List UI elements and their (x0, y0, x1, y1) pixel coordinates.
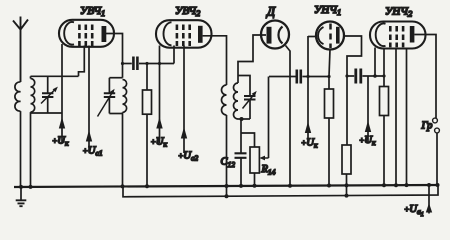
tube UNC1 envelope (316, 22, 344, 50)
supply arrow +Uk4 (365, 121, 371, 133)
svg-text:УНЧ1: УНЧ1 (314, 4, 341, 17)
wire +Uc1 stub under UVC1 (88, 46, 90, 152)
resistor R-b bottom lead (346, 174, 348, 196)
wire UVC2 anode lead (203, 36, 227, 85)
capacitor C-var2 plates (104, 93, 115, 97)
svg-text:УВЧ1: УВЧ1 (80, 5, 105, 18)
antenna (13, 17, 28, 83)
resistor R-a bottom lead (328, 118, 330, 187)
wire UNC2 cathode lead (375, 48, 384, 77)
coil L1 antenna winding (15, 82, 21, 111)
supply arrow +Uk3 (305, 122, 311, 134)
tube UNC2 envelope (370, 22, 426, 49)
tube UNC1 cathode arc (318, 27, 323, 44)
wire UNC1 anode lead (344, 36, 362, 145)
resistor R14 top lead (241, 133, 255, 147)
capacitor C-coup1 right lead to UVC2 grid line (139, 63, 174, 65)
svg-text:+Uк: +Uк (359, 135, 376, 147)
resistor R14 (250, 147, 259, 173)
resistor R-grid2 (143, 90, 152, 114)
capacitor C-var1 plates (42, 93, 53, 97)
second supply rail (123, 185, 438, 197)
capacitor C-var2 branch (108, 78, 110, 114)
capacitor C-coup2 right lead (302, 76, 329, 78)
wire L5 top up (238, 35, 266, 83)
wire tank3 bottom rail (238, 118, 250, 120)
tube D detector envelope (261, 21, 289, 49)
svg-text:+Uк: +Uк (301, 138, 318, 150)
wire tank2 top rail (109, 77, 122, 79)
tube UVC1 envelope (59, 20, 114, 47)
capacitor C-coup2 plates (297, 70, 301, 84)
coil L3 tank2 winding (123, 80, 127, 113)
wire L2 bottom to bus (30, 112, 32, 186)
wire tank3 cap branch top (238, 76, 250, 97)
ground bus (14, 185, 438, 187)
arrow of variable capacitor C-var1 (41, 88, 57, 104)
wire UVC1 cathode lead down crossing tank1 rail (61, 44, 63, 113)
wire UVC2 cathode lead (173, 46, 175, 64)
tube UNC1 grid dashes (329, 24, 332, 49)
tube UVC2 grid dashes (177, 25, 190, 47)
wire UVC1 grid lead to tank1 rail (79, 46, 85, 77)
tube UNC2 cathode arc (376, 24, 386, 47)
coil L2 tank1 winding (31, 79, 35, 113)
capacitor C12 bottom lead (240, 158, 242, 187)
wire L1 bottom to ground bus (20, 111, 22, 186)
supply arrow +Uc1 (86, 130, 92, 142)
svg-text:Д: Д (266, 5, 276, 19)
wire UVC1 anode lead (106, 34, 123, 78)
wire tank1 bottom rail (31, 112, 63, 114)
resistor R-grid2 bottom lead (146, 114, 148, 186)
bus junction dots (19, 183, 440, 198)
node junction UNC2 cathode (373, 74, 377, 78)
svg-text:УНЧ2: УНЧ2 (385, 6, 413, 19)
tube UVC1 anode bar (102, 26, 107, 42)
capacitor C-coup1 left lead (123, 63, 132, 65)
speaker terminal circles Gr (433, 118, 438, 123)
svg-text:+Uс1: +Uс1 (83, 146, 103, 158)
tube UVC2 anode bar (198, 26, 203, 43)
capacitor C-var3 plates (244, 96, 256, 100)
resistor R-b (load) (342, 145, 351, 174)
capacitor C12 plates (235, 153, 247, 158)
wire UNC2 anode out (414, 35, 436, 119)
svg-text:R14: R14 (261, 164, 276, 177)
tube UNC1 anode bar (336, 27, 340, 44)
wire wiper up to output line (268, 77, 270, 159)
svg-text:УВЧ2: УВЧ2 (175, 5, 201, 18)
supply arrow +Uc2 (181, 127, 187, 139)
wire UNC1 left lead (308, 36, 316, 38)
coil L4 detector primary (222, 85, 227, 115)
wire UNC1 bottom lead (329, 50, 330, 90)
potentiometer R14 wiper arrow (262, 157, 269, 159)
svg-text:Гр: Гр (421, 121, 433, 132)
node junction anode/C-coup1 (121, 62, 124, 65)
capacitor C-var1 branch (47, 76, 49, 113)
tube UVC1 grid dashes (79, 25, 92, 47)
svg-text:+Uс2: +Uс2 (178, 151, 198, 163)
wire tank2 bottom rail (109, 113, 122, 115)
tube UVC2 envelope (156, 20, 212, 48)
capacitor C12 top lead (240, 119, 242, 153)
wire +Uc2 stub under UVC2 (183, 46, 185, 154)
arrow of variable capacitor C-var2 (98, 91, 114, 117)
wire tank1 top rail (31, 75, 79, 77)
node junction anode RC (345, 74, 348, 77)
node junction R-grid2 (145, 62, 148, 65)
resistor R-c bottom lead (383, 116, 385, 187)
node junction grid line UNC1 (306, 75, 309, 78)
wire detector output line (269, 76, 296, 78)
tube D cathode arc (278, 27, 282, 44)
tube UNC2 anode bar (410, 26, 415, 43)
svg-text:+Uа1: +Uа1 (404, 204, 424, 218)
svg-text:+Uк: +Uк (52, 136, 69, 148)
capacitor C-var3 bottom lead (249, 100, 251, 120)
resistor R-grid2 top lead (146, 64, 148, 91)
wire UNC1 grid lead (307, 36, 309, 143)
resistor R14 bottom lead (254, 173, 256, 187)
capacitor C-coup1 plates (133, 57, 137, 71)
wire lower terminal to bus (436, 133, 438, 186)
coil L5 detector secondary (234, 83, 239, 119)
capacitor C-coup3 left lead (347, 75, 354, 77)
svg-text:C12: C12 (221, 157, 236, 170)
tube UVC1 cathode arc (64, 22, 74, 45)
wire tank2 bottom to bus (122, 112, 124, 186)
wire D cathode lead down to bus (286, 46, 291, 187)
tube D anode bar (267, 27, 272, 44)
wire L4 bottom to bus (226, 115, 228, 196)
wire UNC2 grid lead to resistor (383, 48, 385, 87)
wire UNC2 heater leads (396, 48, 407, 187)
tube UVC2 cathode arc (164, 22, 172, 45)
supply arrow +Uk2 (156, 117, 162, 129)
svg-text:+Uк: +Uк (151, 137, 168, 149)
supply arrow +Ua (428, 186, 430, 214)
node junction tank3 bottom (240, 117, 244, 121)
capacitor C-coup3 plates (356, 69, 361, 84)
wire UVC2 grid lead with +Uk stub (159, 46, 161, 144)
resistor R-c (grid UNC2) (380, 87, 389, 116)
supply arrow +Uk1 (61, 113, 63, 144)
ground symbol (20, 187, 22, 201)
wire L2 top to tank1 top rail (30, 76, 32, 78)
capacitor C-coup3 right lead (362, 75, 375, 77)
tube UNC2 grid dashes (390, 26, 403, 47)
wire +Uk4 stub (367, 76, 369, 142)
arrow of variable capacitor C-var3 (243, 93, 256, 109)
resistor R-a (grid leak UNC1) (325, 89, 334, 118)
